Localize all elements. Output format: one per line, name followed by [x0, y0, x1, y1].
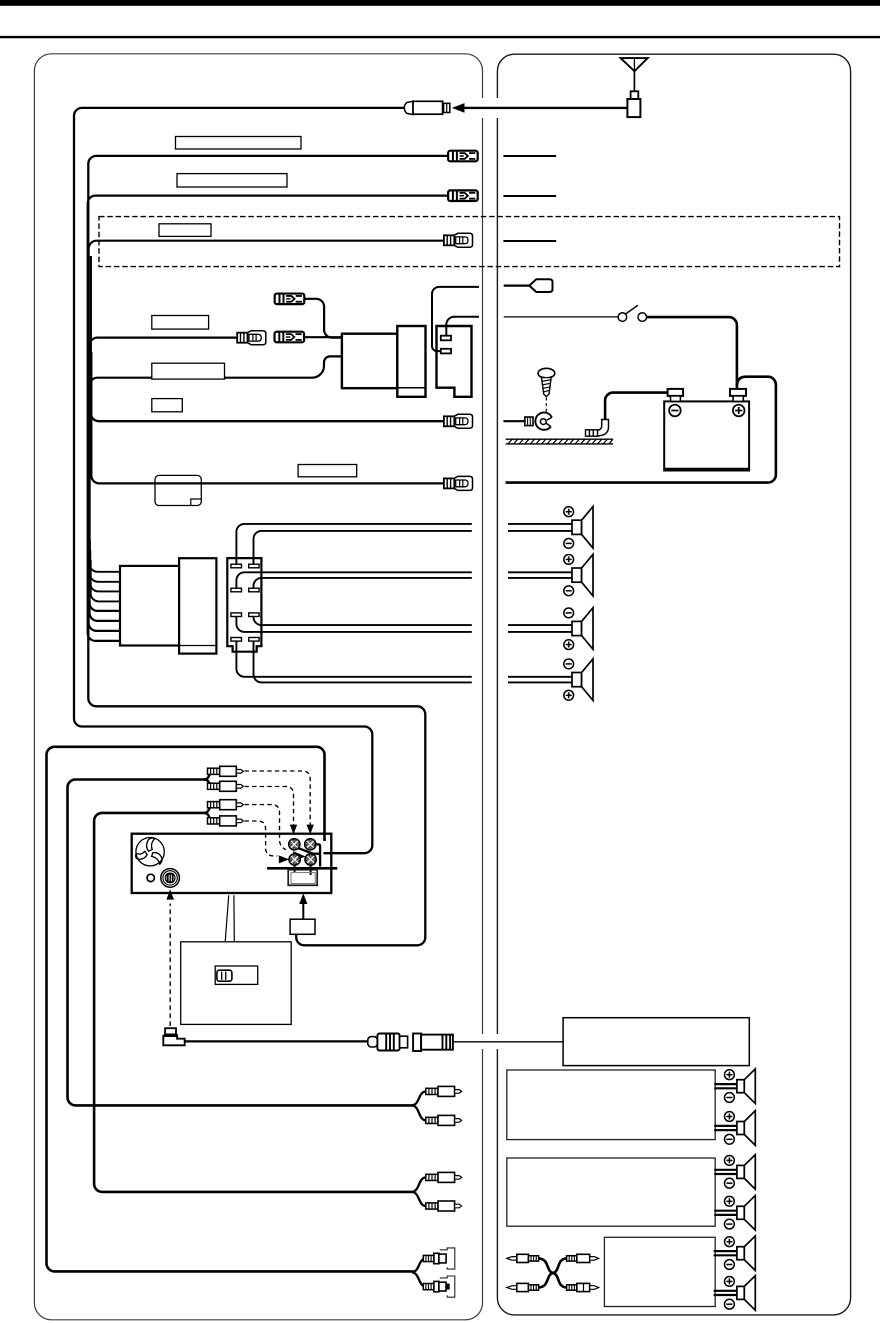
wire note row (to battery line) — [91, 352, 444, 483]
antenna mast — [621, 58, 648, 91]
ground wire left panel — [91, 256, 444, 421]
CD cord female connector — [413, 1034, 453, 1052]
plus — [564, 507, 574, 517]
bullet pair on power lead — [275, 332, 305, 343]
spade connector note row — [444, 476, 473, 490]
speaker wires pair2 — [236, 572, 573, 588]
speaker wires pair4 — [236, 641, 573, 682]
Y-cable 1 branches — [412, 1091, 426, 1120]
cooling fan — [136, 838, 165, 866]
wire to bullet pair (dangling option lead) — [304, 299, 342, 338]
CD changer cord — [185, 1040, 369, 1042]
amp3 speaker F leads — [714, 1291, 738, 1295]
RCA cord plug 2 — [204, 780, 220, 787]
amp2 speaker D — [737, 1196, 755, 1231]
RCA cord plug 3 — [204, 805, 220, 813]
ignition wire from fuse — [446, 317, 479, 336]
wire row2 (continues as ISO fan wire) — [88, 196, 448, 641]
key symbol — [529, 279, 552, 292]
plus — [564, 640, 574, 650]
callout spike — [225, 895, 234, 942]
battery plus symbol — [733, 405, 745, 417]
patch cord right plugs — [567, 1254, 599, 1291]
L-plug remote — [163, 1028, 184, 1045]
fuse holder — [437, 326, 472, 397]
Y3 jack lower — [423, 1276, 455, 1297]
RCA cord plug 4 — [204, 813, 220, 821]
speaker rear-left — [572, 608, 593, 650]
minus — [564, 608, 574, 618]
fuse contact lower — [441, 349, 451, 354]
short wire into relay box — [304, 336, 342, 338]
housing pins row4 — [231, 638, 242, 642]
wire row3 (continues as ISO fan wire) — [89, 241, 448, 631]
ISO harness fan wires — [90, 530, 121, 601]
antenna socket on lead — [404, 101, 450, 114]
Y1 plug lower — [426, 1115, 462, 1125]
CD cord thin lead to changer — [453, 1041, 563, 1043]
dashed lead 1 to jack J2 — [245, 771, 311, 826]
amp2 speaker C — [737, 1155, 755, 1190]
Y2 plug upper — [426, 1172, 462, 1182]
label box row2 — [177, 174, 287, 187]
accessory wire from fuse — [432, 287, 479, 351]
CD cord male connector — [368, 1034, 408, 1051]
line-out loop 1 (to Y-cable 1) — [68, 780, 415, 1106]
battery minus symbol — [669, 405, 681, 417]
ISO plug cap — [179, 558, 216, 653]
strap clamp block — [586, 430, 598, 436]
speaker front-left — [572, 507, 593, 549]
ring terminal — [525, 412, 552, 429]
female bullet on power lead — [237, 331, 266, 345]
label box row3 — [159, 224, 211, 237]
dashed lead 2 to jack J1 — [245, 787, 294, 826]
fuse contact upper — [441, 336, 451, 341]
connector socket below jacks — [288, 870, 317, 886]
label box note row — [298, 465, 357, 477]
leader line row3 — [503, 240, 556, 242]
minus — [564, 586, 574, 596]
dashed option box — [99, 217, 840, 267]
minus — [564, 659, 574, 669]
amp1 speaker B leads — [714, 1126, 737, 1130]
Y2 plug lower — [426, 1201, 462, 1211]
spade connector row1 — [448, 151, 478, 162]
amp3 speaker F — [737, 1276, 755, 1311]
ignition switch — [618, 305, 646, 321]
head unit rear panel — [132, 834, 332, 893]
label box second lead — [152, 363, 225, 379]
amp2 speaker D leads — [714, 1211, 737, 1215]
mating connector housing — [227, 558, 261, 652]
spade connector row2 — [448, 190, 478, 201]
arrowhead — [452, 103, 465, 113]
amplifier box 3 — [604, 1237, 715, 1306]
right panel frame — [497, 54, 850, 1315]
minus — [564, 539, 574, 549]
relay housing — [397, 326, 425, 397]
amp3 speaker E leads — [714, 1251, 738, 1255]
amp1 speaker B — [737, 1111, 755, 1146]
RCA jacks J1 J2 J3 J4 — [289, 839, 317, 866]
bullet pair connector (upper, disconnected) — [275, 294, 305, 305]
housing pins row2 — [231, 588, 242, 592]
antenna plug — [627, 91, 640, 117]
accessory wire right panel — [504, 285, 530, 287]
amp3 speaker E — [737, 1236, 755, 1271]
note box with folded corner — [155, 475, 201, 505]
dashed lead 3 to jack J4 — [245, 805, 286, 850]
leader line row2 — [503, 195, 556, 197]
remote lead dashed line — [169, 904, 171, 1027]
ISO plug body — [120, 566, 179, 646]
switch to battery plus wire — [647, 317, 737, 389]
wire second lead into relay box — [90, 356, 342, 611]
header black bar — [0, 0, 880, 6]
ground spade connector — [444, 414, 473, 428]
plus — [564, 555, 574, 565]
jack stems — [295, 865, 311, 875]
remote sensor box — [181, 942, 292, 1025]
left panel frame — [34, 54, 482, 1320]
plus — [564, 690, 574, 700]
header rule — [0, 36, 880, 38]
amp2 speaker C leads — [714, 1170, 737, 1174]
mounting screw — [538, 368, 555, 396]
speaker wires pair3 — [236, 617, 573, 632]
subwoofer line loop (unit to Y-cable 3) — [47, 747, 415, 1272]
wire row1 (continues down as band + line to fuse rect) — [88, 156, 448, 945]
battery minus wire — [605, 393, 668, 420]
antenna lead wire (down left side, to unit rear) — [74, 108, 404, 853]
amp1 speaker A leads — [714, 1084, 737, 1088]
antenna arrow wire — [462, 107, 627, 109]
fuse arrow to unit — [302, 901, 304, 919]
spade connector row3 — [444, 233, 473, 247]
battery plus branch loop (to amp line) — [506, 377, 776, 483]
Y-cable 3 branches — [412, 1259, 426, 1287]
speaker front-right — [572, 554, 593, 596]
DIN remote jack — [161, 869, 180, 888]
amp1 speaker A — [737, 1069, 755, 1104]
Y3 jack upper — [423, 1248, 455, 1269]
RCA cord plug 1 — [204, 771, 220, 779]
speaker wires pair1 — [236, 524, 573, 564]
Y-cable 2 branches — [412, 1177, 426, 1206]
housing pins row3 — [231, 613, 242, 617]
CD changer box — [563, 1018, 749, 1066]
label box row1 — [176, 137, 302, 150]
indicator hole — [147, 874, 154, 881]
fuse holder below unit — [290, 919, 315, 934]
ground wire right panel — [503, 420, 526, 422]
patch cord left plugs — [507, 1254, 539, 1291]
amplifier box 1 — [507, 1070, 715, 1140]
ignition wire right panel — [504, 316, 618, 318]
chassis ground bar — [506, 439, 613, 444]
speaker rear-right — [572, 659, 593, 701]
Y1 plug upper — [426, 1086, 462, 1096]
crossed patch cords — [539, 1258, 567, 1287]
slide switch — [215, 966, 258, 984]
label box ground lead — [152, 399, 183, 412]
amplifier box 2 — [507, 1158, 715, 1226]
battery minus strap to chassis — [597, 420, 608, 437]
dashed lead 4 to jack J3 — [245, 821, 278, 856]
amp feed line — [267, 867, 337, 870]
housing pins row1 — [231, 564, 242, 568]
leader line row1 — [503, 155, 556, 157]
wire power lead (to relay connector) — [90, 338, 237, 621]
screw dashed line — [545, 398, 547, 413]
relay connector body — [342, 334, 397, 389]
battery — [664, 389, 750, 471]
jack bus wiring — [299, 844, 321, 866]
label box power lead — [152, 316, 209, 330]
line-out loop 2 (to Y-cable 2) — [94, 813, 414, 1192]
